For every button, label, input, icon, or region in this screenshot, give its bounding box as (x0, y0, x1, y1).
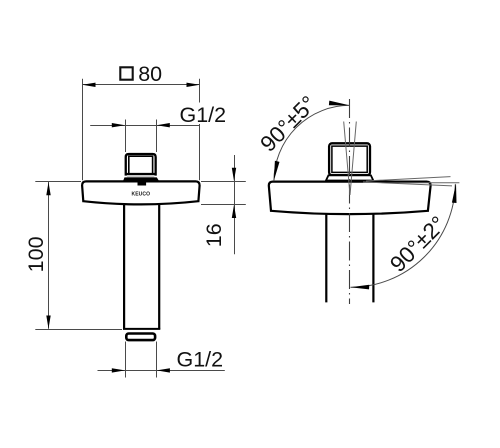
square symbol (120, 67, 132, 79)
dim 16: arrow up to bottom edge (232, 205, 236, 218)
dim 16: dimension line (234, 155, 236, 254)
arc 90+-2 arrow top (tip up) (452, 183, 457, 203)
pipe (side view) (326, 214, 373, 302)
dim 16: extension line bottom (201, 204, 246, 206)
dim G1/2 bottom: dimension line (98, 370, 225, 372)
nut body bottom line (125, 173, 156, 175)
svg-text:80: 80 (138, 62, 162, 86)
escutcheon plate (side view) (269, 182, 431, 215)
dim 100: extension line top (35, 181, 81, 183)
tolerance fan nominal line (400, 182, 459, 184)
centerline (dash-dot) (349, 99, 351, 304)
nut (side view) body (329, 143, 370, 175)
svg-text:G1/2: G1/2 (180, 103, 227, 127)
arc 90+-5 arrow top (tip right at centerline) (329, 101, 350, 106)
svg-text:G1/2: G1/2 (177, 347, 224, 371)
dim G1/2 top: arrow left (outside, tip right) (112, 123, 125, 127)
dim G1/2 top: arrow right (outside, tip left) (157, 123, 170, 127)
nut inner edge (129, 156, 153, 174)
dim G1/2 bottom: extension lines (125, 342, 127, 378)
dim 100: dimension line (48, 182, 50, 329)
dim square-80: dimension line (82, 84, 200, 86)
nut (front view) body: sides and top (126, 154, 156, 176)
sleeve ring G1/2 outlet (126, 334, 155, 341)
svg-text:KEUCO: KEUCO (132, 191, 151, 197)
dim G1/2 bottom: arrow left (tip right) (112, 368, 125, 372)
dim square-80: extension line right (199, 79, 201, 180)
dim G1/2 top: dimension line (90, 125, 200, 127)
tolerance fan +-2deg lower line (363, 182, 452, 186)
dim square-80: extension line left (82, 79, 84, 180)
dim G1/2 top: extension lines (125, 120, 127, 153)
dim 16: arrow down to top edge (232, 168, 236, 181)
dim 16: extension line top (201, 181, 246, 183)
nut thread nub (138, 182, 147, 185)
tolerance fan +-5deg (344, 122, 357, 196)
dim G1/2 bottom: arrow right (tip left) (157, 368, 170, 372)
pipe (front view) (123, 200, 160, 329)
nut (side view) inner edge (332, 146, 367, 172)
nut (side view) base skirt (326, 175, 373, 180)
dim 100: extension line bottom (35, 329, 122, 331)
dim square-80: arrow left (82, 83, 95, 87)
arc 90+-2 (351, 184, 456, 287)
tolerance fan +-2deg upper line (366, 177, 451, 181)
label G1/2 top halo (178, 103, 229, 125)
nut base band (123, 177, 160, 181)
svg-text:16: 16 (202, 223, 226, 247)
dim square-80: arrow right (187, 83, 200, 87)
dim 100: arrow up (46, 182, 50, 195)
arc 90+-2 arrow bottom (tip left at centerline) (350, 285, 369, 290)
dim 100: arrow down (46, 316, 50, 329)
nut base shade (127, 175, 154, 177)
arc 90+-5 (274, 105, 350, 181)
arc 90+-5 arrow bottom (tip down at plate) (274, 161, 280, 181)
escutcheon plate (front view) (82, 181, 200, 204)
svg-text:100: 100 (24, 236, 48, 272)
